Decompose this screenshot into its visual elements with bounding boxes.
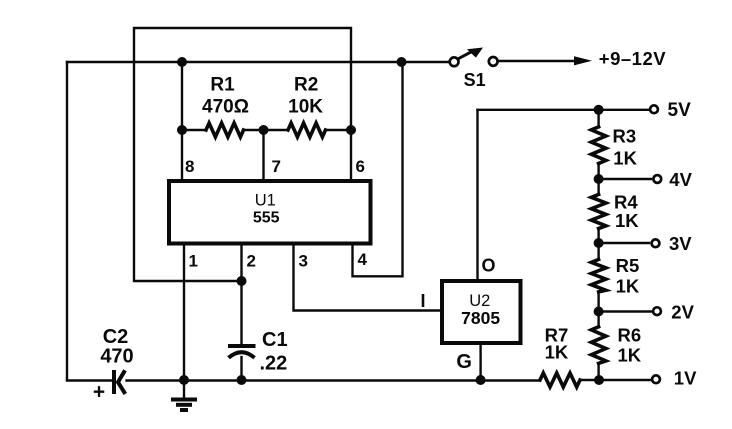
svg-text:S1: S1 [464, 70, 486, 90]
junction dot pin 1 at ground rail [179, 375, 189, 385]
wire: 4V tap [599, 178, 651, 180]
terminal 1V open circle [652, 375, 660, 383]
capacitor C2 curved plate [118, 370, 125, 394]
wire: pin 4 hook to +V vertical [353, 62, 403, 276]
wire: pin 2 vertical upper segment to C1 [240, 244, 242, 345]
svg-text:1K: 1K [545, 341, 569, 362]
svg-text:1K: 1K [615, 210, 639, 231]
capacitor C1 curved plate [229, 352, 255, 358]
svg-text:2: 2 [247, 252, 256, 271]
junction dot on +V rail at pin 8 [177, 57, 187, 67]
svg-text:G: G [456, 351, 472, 373]
svg-text:I: I [421, 291, 426, 311]
wire: R1-R2 rail segment right [326, 129, 352, 131]
svg-text:.22: .22 [260, 353, 288, 375]
wire: U2 output vertical to 5V rail [476, 110, 478, 280]
terminal 5V open circle [650, 105, 658, 113]
svg-text:R2: R2 [294, 75, 318, 96]
resistor R6 [591, 327, 606, 364]
svg-text:4: 4 [358, 250, 368, 269]
svg-text:O: O [482, 256, 496, 276]
svg-text:3V: 3V [669, 233, 692, 254]
svg-text:R5: R5 [616, 255, 640, 276]
svg-text:10K: 10K [288, 97, 323, 118]
resistor R3 [591, 127, 606, 164]
wire: R1-R2 rail segment left [182, 129, 206, 131]
wire: feedback loop pin2 to top rectangle to pin 6 [134, 28, 351, 281]
wire: 5V rail [478, 109, 651, 111]
svg-text:2V: 2V [671, 301, 694, 322]
wire: pin 2 / C1 lower segment to ground rail [240, 357, 242, 380]
switch S1 pole contact [450, 57, 459, 66]
junction dot C1 at ground rail [237, 375, 247, 385]
svg-text:3: 3 [299, 252, 308, 271]
wire: ladder segment 2V to 1V node [597, 312, 599, 381]
junction dot on +V rail at pin 4 riser [397, 57, 407, 67]
capacitor C2 straight plate [112, 370, 116, 394]
svg-text:R6: R6 [618, 324, 642, 345]
svg-text:1K: 1K [613, 148, 637, 169]
svg-text:1: 1 [189, 252, 198, 271]
junction dot pin 2 feedback [237, 276, 247, 286]
wire: left outer vertical (C2 branch) [66, 62, 68, 380]
wire: pin 8 vertical from +V rail [181, 62, 183, 180]
svg-text:7805: 7805 [461, 308, 500, 328]
switch S1 lever with arrowhead [457, 48, 483, 60]
wire: pin 7 vertical [262, 130, 264, 180]
svg-text:1K: 1K [618, 345, 642, 366]
svg-text:U1: U1 [255, 192, 276, 210]
node 1V junction on ground rail [594, 375, 604, 385]
capacitor C1 top plate [228, 344, 256, 348]
junction dot R2 right end [346, 125, 356, 135]
svg-text:7: 7 [272, 157, 281, 176]
wire: S1 to +9-12V arrow [498, 60, 576, 62]
wire: R1-R2 rail segment middle [244, 129, 289, 131]
node 3V junction [594, 238, 604, 248]
wire: 2V tap [599, 310, 652, 312]
svg-text:4V: 4V [669, 169, 692, 190]
resistor R5 [591, 259, 606, 292]
wire: pin 3 to U2 input [294, 244, 442, 311]
svg-text:R3: R3 [613, 126, 637, 147]
svg-text:+9–12V: +9–12V [599, 48, 666, 69]
switch S1 throw contact [489, 57, 498, 66]
wire: ladder segment 5V to 4V [597, 110, 599, 179]
terminal 4V open circle [653, 175, 661, 183]
svg-text:470: 470 [100, 346, 133, 368]
wire: ladder segment 4V to 3V [597, 179, 599, 243]
wire: 3V tap [599, 242, 649, 244]
arrowhead to +9-12V [574, 56, 592, 65]
node 2V junction [594, 307, 604, 317]
ground symbol [171, 380, 197, 410]
resistor R7 [540, 373, 580, 387]
terminal 2V open circle [653, 307, 661, 315]
wire: ground bottom rail right section to 1V terminal [580, 379, 652, 381]
resistor R2 [288, 123, 326, 137]
node 4V junction [594, 174, 604, 184]
resistor R4 [591, 194, 606, 228]
wire: +V top rail from left vertical to S1 [67, 61, 449, 63]
op-amp U1 555 timer body [169, 181, 371, 244]
junction dot R1 left end [177, 125, 187, 135]
svg-text:8: 8 [185, 157, 194, 176]
wire: ground bottom rail left section [67, 379, 111, 381]
wire: ground bottom rail middle section [127, 379, 541, 381]
resistor R1 [206, 123, 244, 137]
svg-text:555: 555 [253, 210, 280, 227]
svg-text:5V: 5V [668, 100, 692, 121]
svg-text:470Ω: 470Ω [202, 97, 249, 118]
svg-text:1K: 1K [616, 276, 640, 297]
junction dot U2 G at ground rail [476, 375, 486, 385]
wire: pin 1 vertical to ground rail [183, 244, 185, 380]
svg-text:R1: R1 [210, 75, 235, 96]
junction dot R1-R2 pin 7 [259, 125, 269, 135]
wire: U2 ground pin to ground rail [479, 343, 481, 380]
svg-text:C1: C1 [262, 329, 288, 351]
svg-text:1V: 1V [674, 368, 697, 389]
regulator U2 7805 body [442, 281, 521, 343]
node 5V junction [594, 105, 604, 115]
terminal 3V open circle [652, 239, 660, 247]
svg-text:+: + [93, 381, 105, 404]
wire: ladder segment 3V to 2V [597, 243, 599, 312]
svg-text:6: 6 [356, 157, 365, 176]
